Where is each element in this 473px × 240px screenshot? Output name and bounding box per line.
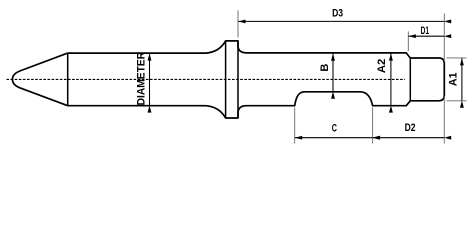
svg-text:D1: D1 <box>421 25 429 37</box>
B dim <box>332 54 334 92</box>
DIAMETER dim <box>149 53 151 105</box>
extension line A1 bottom <box>447 100 467 102</box>
svg-text:DIAMETER: DIAMETER <box>135 52 147 106</box>
extension line D2 right (shank end face, below) <box>443 96 445 144</box>
D2 dim <box>373 137 444 139</box>
extension line C left (groove front edge) <box>294 108 296 144</box>
svg-text:A1: A1 <box>447 73 459 87</box>
D3 dim <box>238 20 444 22</box>
conical tip <box>12 53 67 106</box>
A2 dim <box>390 53 392 105</box>
svg-text:C: C <box>332 122 337 134</box>
A1 dim <box>461 58 463 100</box>
extension line A1 top <box>447 57 467 59</box>
svg-text:B: B <box>319 64 331 72</box>
extension line D3/D1/D2 right (shank end face) <box>443 14 445 62</box>
shank step face line <box>409 58 411 101</box>
centerline <box>7 78 406 80</box>
dimension lines <box>150 21 462 137</box>
extension line C/D2 middle (groove rear edge) <box>372 108 374 144</box>
extension line D3 left (collar rear face) <box>237 10 239 37</box>
body silhouette <box>68 41 445 118</box>
D1 dim <box>409 35 444 37</box>
svg-text:A2: A2 <box>376 59 388 74</box>
svg-text:D2: D2 <box>405 122 416 134</box>
C dim <box>295 137 372 139</box>
collar front face line <box>225 41 227 118</box>
extension line D1 left (step face) <box>407 31 409 51</box>
collar rear face line <box>237 41 239 118</box>
tool body outline <box>12 41 444 118</box>
tip/body junction line <box>67 53 69 106</box>
svg-text:D3: D3 <box>332 8 343 20</box>
